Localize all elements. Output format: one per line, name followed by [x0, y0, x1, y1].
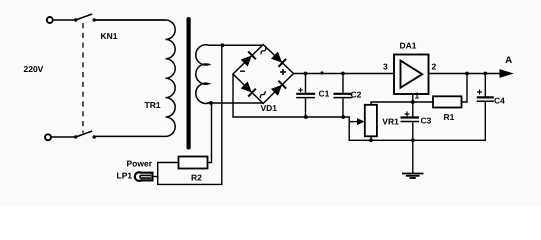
svg-text:DA1: DA1: [400, 41, 417, 51]
wire: R1 right to output rail: [462, 74, 468, 103]
switch KN1 pole 2: [74, 131, 96, 139]
switch KN1 pole 1: [74, 14, 96, 22]
terminal T1 (top input): [47, 17, 53, 23]
capacitor C1: [296, 74, 315, 118]
svg-text:1: 1: [415, 91, 420, 101]
node: secondary top junction: [220, 43, 224, 47]
svg-text:C2: C2: [351, 90, 362, 100]
wire: VR1 bottom lead: [370, 136, 372, 140]
voltage regulator DA1 box: [394, 55, 429, 95]
svg-text:KN1: KN1: [101, 31, 118, 41]
DA1 triangle: [401, 61, 423, 88]
svg-text:VD1: VD1: [261, 103, 278, 113]
wire: bridge minus to negative rail: [233, 74, 349, 122]
node rail a: [304, 72, 308, 76]
node pin1: [411, 100, 415, 104]
diode VD1.4 (bottom-right edge): [271, 81, 287, 97]
minus mark: [240, 70, 245, 72]
wire: pin1 node to R1: [413, 101, 433, 103]
svg-text:C1: C1: [319, 89, 330, 99]
svg-text:R1: R1: [444, 112, 455, 122]
transformer TR1 core: [187, 17, 191, 150]
wire: [94, 19, 165, 21]
svg-text:R2: R2: [191, 173, 202, 183]
transformer TR1 secondary winding: [196, 45, 263, 104]
wire: DA1 pin1 down: [412, 94, 414, 102]
node VR1 bottom: [369, 138, 373, 142]
plus mark: [280, 69, 286, 75]
wiper arrowhead into VR1: [357, 118, 365, 125]
AC mark top (~): [260, 48, 268, 55]
wire: branch down to ground rail: [349, 102, 485, 141]
wire: lamp node up to R2 left: [158, 163, 179, 177]
AC mark bottom (~): [259, 91, 267, 98]
wire: pin1 node to VR1 top: [371, 102, 413, 105]
svg-text:2: 2: [432, 61, 437, 71]
svg-text:TR1: TR1: [145, 100, 161, 110]
resistor R1: [433, 96, 462, 107]
svg-text:C4: C4: [494, 96, 505, 106]
lamp LP1: [135, 172, 158, 181]
node output C4: [483, 72, 487, 76]
wire: [54, 19, 76, 21]
svg-text:C3: C3: [421, 115, 432, 125]
mechanical link (dashed): [82, 23, 84, 133]
diode VD1.1 (left-top edge): [240, 51, 256, 67]
svg-text:Power: Power: [127, 158, 153, 168]
ground: [402, 140, 424, 178]
capacitor C4: [477, 74, 494, 102]
svg-text:220V: 220V: [24, 64, 44, 74]
wire: lamp node down, bottom run, up to secondary top: [158, 45, 222, 184]
node rail c: [341, 72, 345, 76]
transformer TR1 primary winding: [94, 20, 175, 136]
diode VD1.3 (left-bottom edge): [240, 81, 256, 97]
output arrowhead: [500, 69, 514, 78]
potentiometer VR1: [365, 105, 377, 137]
wire: wiper branch: [349, 121, 357, 123]
resistor R2: [179, 157, 208, 169]
node C1 bottom: [304, 115, 308, 119]
capacitor C3: [401, 102, 420, 140]
wire: DA1 pin2 output: [429, 73, 502, 75]
node: secondary bottom junction: [209, 101, 213, 105]
svg-text:LP1: LP1: [117, 170, 133, 180]
bridge rectifier VD1 diamond: [233, 45, 294, 104]
wire: [52, 136, 76, 138]
svg-text:A: A: [505, 55, 512, 66]
node C2 bottom: [341, 115, 345, 119]
svg-text:3: 3: [383, 62, 388, 72]
wire: R2 right up to secondary bottom: [208, 103, 212, 163]
node output R1: [465, 72, 469, 76]
svg-text:VR1: VR1: [382, 117, 399, 127]
diode VD1.2 (top-right edge): [271, 51, 287, 67]
wire: bridge plus rail to DA1 pin3: [294, 73, 395, 75]
node ground: [411, 138, 415, 142]
capacitor C2: [334, 74, 353, 118]
terminal T2 (bottom input): [45, 134, 51, 140]
node rail b: [320, 71, 323, 74]
